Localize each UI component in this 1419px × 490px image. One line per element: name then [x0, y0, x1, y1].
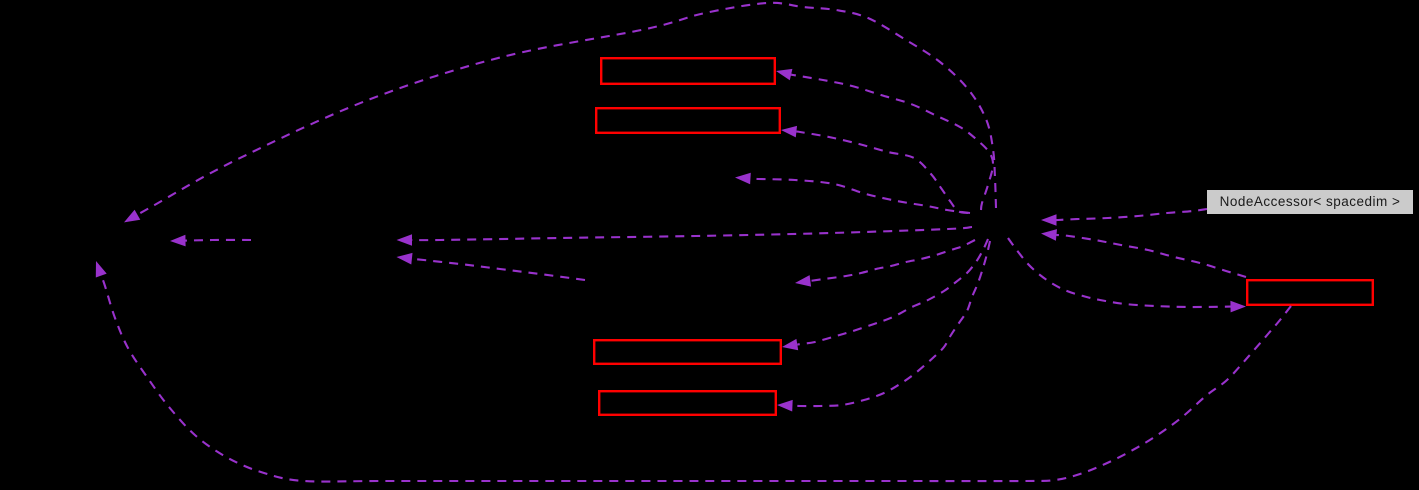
edge: right box to hub	[1041, 229, 1246, 277]
edge: hub to left node L2 upper	[397, 227, 973, 246]
node: red right box (label hidden)	[1247, 280, 1373, 305]
edge: hub to box3	[782, 239, 988, 350]
edge: hub to center node M	[795, 240, 975, 287]
edge: hub to box1	[776, 69, 993, 210]
edge: hub to box2	[781, 126, 968, 213]
node: red box2 (label hidden)	[596, 108, 780, 133]
edge: hub to right box	[1008, 238, 1246, 312]
edge: right box to far-left node L1, bottom arc	[96, 261, 1291, 482]
edge: left node L2 to far-left node L1	[170, 235, 251, 247]
node: red box1 (label hidden)	[601, 58, 775, 84]
edge: hub to center node C1	[735, 173, 970, 213]
svg-text:NodeAccessor< spacedim >: NodeAccessor< spacedim >	[1220, 194, 1401, 209]
edge: hub to box4	[777, 241, 990, 412]
node: red box4 (label hidden)	[599, 391, 776, 415]
node: red box3 (label hidden)	[594, 340, 781, 364]
edge: center node M to left node L2 lower	[397, 253, 586, 280]
edge: NodeAccessor to hub	[1041, 209, 1207, 226]
node: NodeAccessor< spacedim > (current class, gray)	[1207, 190, 1413, 214]
edge: hub to far-left node L1, top arc	[124, 3, 996, 223]
